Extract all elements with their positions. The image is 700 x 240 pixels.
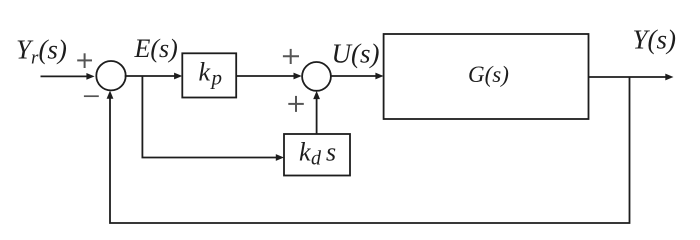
block G bbox=[384, 34, 589, 119]
wire input arrow into summing junction S1 bbox=[41, 73, 95, 80]
svg-text:Y(s): Y(s) bbox=[633, 25, 677, 55]
wire feedback from output branch down, left and up into S1 bbox=[107, 77, 630, 223]
minus sign at summing junction S1 bbox=[84, 95, 99, 97]
svg-text:kds: kds bbox=[299, 138, 336, 170]
svg-text:kp: kp bbox=[199, 58, 224, 90]
svg-text:Yr(s): Yr(s) bbox=[16, 35, 67, 69]
svg-text:E(s): E(s) bbox=[134, 34, 178, 63]
plus sign at summing junction S2 bottom bbox=[288, 96, 304, 112]
wire branch from E(s) node down and right into kd-s block bbox=[142, 76, 284, 161]
block kd s bbox=[284, 134, 350, 176]
plus sign at summing junction S1 bbox=[77, 53, 92, 68]
summing junction S2 bbox=[302, 62, 331, 91]
svg-text:G(s): G(s) bbox=[468, 62, 509, 87]
svg-text:U(s): U(s) bbox=[332, 39, 380, 69]
wire S2 to G block bbox=[331, 73, 384, 80]
wire S1 to kp block bbox=[125, 73, 183, 80]
wire kp to summing junction S2 bbox=[236, 73, 302, 80]
plus sign at summing junction S2 top bbox=[283, 49, 299, 64]
wire kd-s block up into S2 bbox=[313, 91, 320, 134]
summing junction S1 bbox=[96, 61, 125, 90]
wire G output with arrow to Y(s) bbox=[589, 74, 674, 81]
block kp bbox=[182, 53, 236, 97]
